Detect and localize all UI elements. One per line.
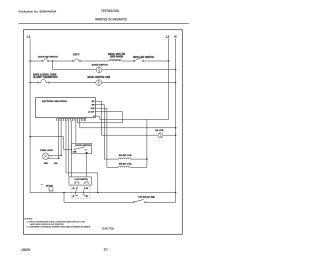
wire row1 right (144, 60, 169, 62)
wire lamp upper lead (49, 154, 61, 156)
igniter bake (circle with filament) (92, 64, 108, 73)
switch latch upper-left (75, 182, 76, 183)
wire pin drop lamp-1 (60, 121, 62, 156)
node junction lamp-2 (58, 157, 60, 159)
wire row1 mid2 (81, 60, 110, 62)
svg-text:BROIL INF SWITCH: BROIL INF SWITCH (133, 57, 154, 59)
wire row2 drop from row1 (53, 61, 97, 70)
motor door latch (42, 183, 54, 192)
node junction latch row left (63, 192, 65, 194)
thermostat hi-limit (arc contact) (33, 73, 58, 83)
connector P1 pin header (57, 118, 87, 121)
node junction N hs-lite (175, 134, 177, 136)
wire EOC out L1 (95, 112, 122, 123)
svg-text:*: * (42, 183, 43, 187)
igniter broil (circle with filament) (88, 76, 111, 86)
node junction L2 row1 (168, 60, 170, 62)
node junction N bottom (175, 192, 177, 194)
svg-text:* OV DR LK SW: * OV DR LK SW (138, 197, 156, 199)
wire EOC out BK (95, 101, 101, 135)
switch door-interlock S1 (38, 57, 58, 62)
thermal fuse TCO 375F (72, 53, 80, 61)
resistor broil coil heater (108, 53, 126, 61)
svg-text:2. COMPONENTS SHOWN AS VIEWED: 2. COMPONENTS SHOWN AS VIEWED FROM REAR … (27, 225, 91, 228)
wire pin to L1-out row (78, 121, 123, 123)
wire lock row to N (146, 201, 176, 203)
svg-text:MOTOR: MOTOR (46, 186, 53, 188)
latch lock switch assembly box (69, 177, 91, 199)
svg-text:L1: L1 (27, 35, 31, 39)
svg-text:NC: NC (73, 196, 75, 198)
svg-text:10: 10 (104, 248, 108, 252)
svg-text:DOOR SWITCH: DOOR SWITCH (75, 145, 91, 147)
svg-text:TEF361GSA: TEF361GSA (101, 9, 120, 13)
node junction L1 row1 (29, 60, 31, 62)
lamp oven light (40, 150, 58, 165)
wire row2 right (102, 69, 176, 71)
svg-text:316417750: 316417750 (102, 227, 115, 230)
node junction T row2 tap (52, 60, 54, 62)
wire EOC out DLB (95, 108, 107, 167)
svg-text:08/05: 08/05 (22, 248, 31, 252)
node L2 label (166, 35, 170, 39)
switch latch lower-left (76, 187, 77, 188)
switch oven door box (72, 143, 92, 154)
pin labels EOC right side (88, 101, 95, 118)
svg-text:BK-BR COIL: BK-BR COIL (119, 155, 133, 157)
lamp HS lite indicator (155, 130, 164, 137)
node L1 label (27, 35, 31, 39)
svg-text:LOCK SWITCH: LOCK SWITCH (74, 179, 88, 181)
schematic border frame (24, 30, 183, 235)
svg-text:BROIL IGNITOR ASM: BROIL IGNITOR ASM (88, 76, 111, 79)
svg-text:WIRING SCHEMATIC: WIRING SCHEMATIC (95, 18, 128, 22)
svg-text:L1 OUT: L1 OUT (88, 111, 95, 113)
node junction L1 row3 (29, 82, 31, 84)
footer page info (22, 248, 108, 252)
node junction valve-1 (146, 158, 148, 160)
switch oven door lock (133, 197, 155, 203)
wire L2 feed horizontal (100, 118, 169, 120)
node N label (174, 35, 176, 39)
solenoid bake valve coil (104, 155, 147, 159)
svg-text:HS LITE: HS LITE (155, 130, 164, 132)
node junction bypass bottom (97, 192, 99, 194)
svg-text:SW: SW (54, 163, 57, 165)
svg-text:DOOR INF SWITCH: DOOR INF SWITCH (38, 57, 58, 59)
wire N rail (175, 39, 177, 203)
wire pin drop to door switch box (75, 121, 77, 144)
svg-text:BAKE IGNITOR: BAKE IGNITOR (92, 64, 108, 67)
svg-text:BR-BK COIL: BR-BK COIL (119, 163, 133, 165)
switch latch upper-right (84, 182, 85, 183)
svg-text:ELECTRONIC OVEN CONTROL: ELECTRONIC OVEN CONTROL (42, 101, 67, 103)
svg-text:N: N (174, 35, 176, 39)
switch broil-infinite S2 (133, 57, 154, 62)
switch latch lower-right (84, 187, 85, 188)
svg-text:OVEN LIGHT: OVEN LIGHT (40, 150, 54, 152)
wire bottom L1 row (30, 192, 176, 194)
wire L2 rail (168, 39, 170, 120)
svg-text:2850-3400W: 2850-3400W (110, 56, 124, 59)
wire pin to N bus row (80, 121, 176, 128)
wire L1 rail (29, 39, 31, 193)
svg-text:NC: NC (86, 196, 88, 198)
wire row1 mid1 (49, 60, 73, 62)
svg-text:L2: L2 (166, 35, 170, 39)
wire EOC out N jog (95, 116, 99, 119)
wire valve common drop (146, 119, 148, 167)
wire lock row drop (64, 193, 134, 203)
node junction N row3 (175, 82, 177, 84)
wire door switch NO drop (85, 154, 87, 177)
svg-text:NOTES:: NOTES: (24, 218, 33, 220)
wire row1 left (30, 60, 42, 62)
wire row3 right (102, 82, 176, 84)
electronic oven control U1 box (36, 98, 96, 118)
node junction N bus (175, 127, 177, 129)
svg-text:40W: 40W (44, 162, 48, 165)
solenoid broil valve coil (107, 163, 147, 167)
header text (19, 9, 128, 21)
wire pin drop latch-b (71, 121, 73, 177)
wire row3 mid (50, 82, 96, 84)
node junction lamp-1 (60, 155, 62, 157)
node junction N row2 (175, 69, 177, 71)
wire pin drop latch bypass (66, 121, 98, 193)
latch dashed mechanical box (71, 185, 90, 199)
header rule (19, 23, 189, 25)
svg-text:1. CIRCUIT SHOWN WITH DOOR CL: 1. CIRCUIT SHOWN WITH DOOR CLOSED AND SW… (27, 220, 86, 223)
svg-text:Publication No. 5995449904: Publication No. 5995449904 (19, 10, 57, 14)
wire L1 branch to door switch (30, 137, 72, 150)
wire row3 left (30, 82, 37, 84)
wire pin drop latch-a (68, 121, 70, 177)
notes block (24, 218, 90, 228)
node junction L1 lamp branch (29, 136, 31, 138)
wire HS lite row (102, 134, 176, 136)
wire pin drop lamp-2 (58, 121, 60, 159)
wire EOC out BR (95, 105, 104, 159)
svg-text:375°F: 375°F (73, 53, 80, 56)
wire lamp lower lead (49, 157, 59, 159)
svg-text:HI-LIMIT THERMOSTAT: HI-LIMIT THERMOSTAT (33, 76, 58, 79)
wire row1 mid3 (121, 60, 134, 62)
